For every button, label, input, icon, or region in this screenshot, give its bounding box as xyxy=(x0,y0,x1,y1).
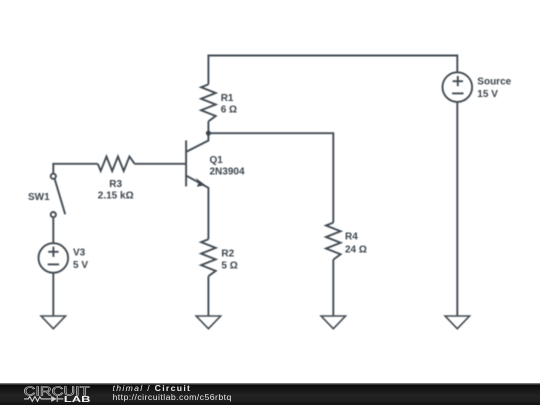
svg-text:5 V: 5 V xyxy=(73,260,88,271)
svg-text:LAB: LAB xyxy=(64,395,91,405)
svg-text:R1: R1 xyxy=(221,93,234,104)
svg-text:SW1: SW1 xyxy=(28,192,50,203)
svg-text:R3: R3 xyxy=(109,179,122,190)
svg-text:Source: Source xyxy=(477,77,511,88)
svg-text:5 Ω: 5 Ω xyxy=(221,261,237,272)
svg-text:6 Ω: 6 Ω xyxy=(221,105,237,116)
svg-text:15 V: 15 V xyxy=(477,89,498,100)
svg-text:2N3904: 2N3904 xyxy=(210,167,245,178)
svg-text:R2: R2 xyxy=(221,248,234,259)
svg-text:2.15 kΩ: 2.15 kΩ xyxy=(98,191,134,202)
svg-text:R4: R4 xyxy=(345,232,358,243)
svg-text:24 Ω: 24 Ω xyxy=(345,245,367,256)
svg-text:V3: V3 xyxy=(73,248,86,259)
svg-text:Q1: Q1 xyxy=(210,155,224,166)
